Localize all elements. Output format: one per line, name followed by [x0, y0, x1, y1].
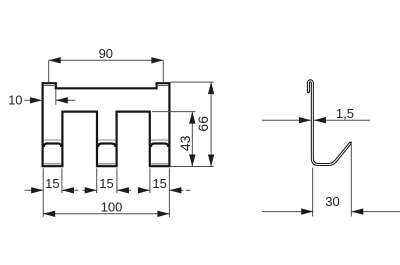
dimension 66: top arrow [208, 82, 214, 94]
dimension 15 (leg 3): right outside arrow with tail [169, 187, 183, 193]
dimension 90: right arrow [151, 57, 163, 63]
dimension 10: outside arrow pointing right [30, 97, 42, 103]
svg-text:15: 15 [45, 176, 59, 191]
extra tail segment right of leg 3 dimension [186, 189, 191, 191]
leg 3 bottom fold inner edge [151, 163, 168, 165]
dimension 90: left extension line [48, 60, 50, 82]
dimension 10: value label [8, 93, 22, 108]
dimension 90: left arrow [49, 57, 61, 63]
dimension 15 (leg 1): left outside arrow with tail [24, 187, 43, 193]
dimension 66: top extension line [170, 81, 213, 83]
bottom extension line left outer [42, 168, 44, 217]
dimension 15 (leg 3): value label [152, 176, 166, 191]
dimension 15 (leg 3): left outside arrow with tail [138, 187, 150, 193]
leg 2 bottom fold inner edge [98, 163, 115, 165]
dimension 43: dimension line [191, 112, 193, 167]
leg 1 hook front edge [44, 144, 62, 148]
dimension 30: right extension line [350, 142, 352, 217]
dimension 66: bottom arrow [208, 155, 214, 167]
left tab inner edge line [44, 85, 56, 87]
dimension 30: value label [325, 194, 339, 209]
dimension 100: value label [101, 199, 123, 214]
dimension 15 (leg 2): left outside arrow with tail [83, 187, 97, 193]
dimension 30: left extension line [312, 168, 314, 217]
bottom extension line right outer [168, 168, 170, 217]
svg-text:66: 66 [195, 116, 211, 132]
svg-text:1,5: 1,5 [336, 106, 354, 121]
leg 2 hook front edge [98, 144, 115, 148]
svg-text:100: 100 [101, 199, 123, 214]
dimension 66: bottom extension line [170, 166, 213, 168]
side view J-profile strip [308, 81, 350, 165]
dimension 43: value label (rotated) [177, 135, 193, 151]
dimension 30: left tail with arrow [262, 208, 313, 214]
dimension 90: dimension line [49, 59, 164, 61]
svg-text:43: 43 [177, 135, 193, 151]
dimension 15 (leg 2): right outside arrow with tail [117, 187, 131, 193]
svg-text:15: 15 [99, 176, 113, 191]
leg 2 bend tangent line [98, 139, 115, 141]
right tab inner edge line [157, 85, 169, 87]
leg 3 bend tangent line [151, 139, 168, 141]
dimension 43: top extension line [152, 111, 195, 113]
front view outline of triple-hook bracket [43, 83, 170, 166]
dimension 100: dimension line [43, 213, 169, 215]
dimension 1,5: left tail with arrow [262, 117, 311, 123]
bottom extension line leg2 right [116, 168, 118, 193]
dimension 66: value label (rotated) [195, 116, 211, 132]
dimension 15 (leg 1): right outside arrow with tail [62, 187, 79, 193]
bottom extension line leg1 right [61, 168, 63, 193]
svg-text:90: 90 [99, 46, 113, 61]
dimension 15 (leg 1): value label [45, 176, 59, 191]
dimension 66: dimension line [210, 82, 212, 166]
dimension 30: right tail with arrow [351, 208, 400, 214]
dimension 43: top arrow [189, 112, 195, 124]
dimension 1,5: value label [336, 106, 354, 121]
dimension 1,5: right tail with arrow [314, 117, 370, 123]
dimension 10: leader line from label [25, 99, 32, 101]
leg 3 hook front edge [151, 144, 168, 148]
dimension 90: right extension line [162, 60, 164, 82]
dimension 10: inside arrow pointing left with tail [56, 97, 75, 103]
leg 1 bend tangent line [44, 139, 61, 141]
bottom extension line leg2 left [96, 168, 98, 193]
bottom extension line leg3 left [149, 168, 151, 193]
dimension 10: extension line at tab inner edge [55, 90, 57, 105]
svg-text:30: 30 [325, 194, 339, 209]
dimension 43: bottom arrow [189, 155, 195, 167]
dimension 90: value label [99, 46, 113, 61]
dimension 100: left arrow [43, 211, 55, 217]
svg-text:10: 10 [8, 93, 22, 108]
svg-text:15: 15 [152, 176, 166, 191]
dimension 100: right arrow [157, 211, 169, 217]
leg 1 bottom fold inner edge [44, 163, 61, 165]
dimension 15 (leg 2): value label [99, 176, 113, 191]
